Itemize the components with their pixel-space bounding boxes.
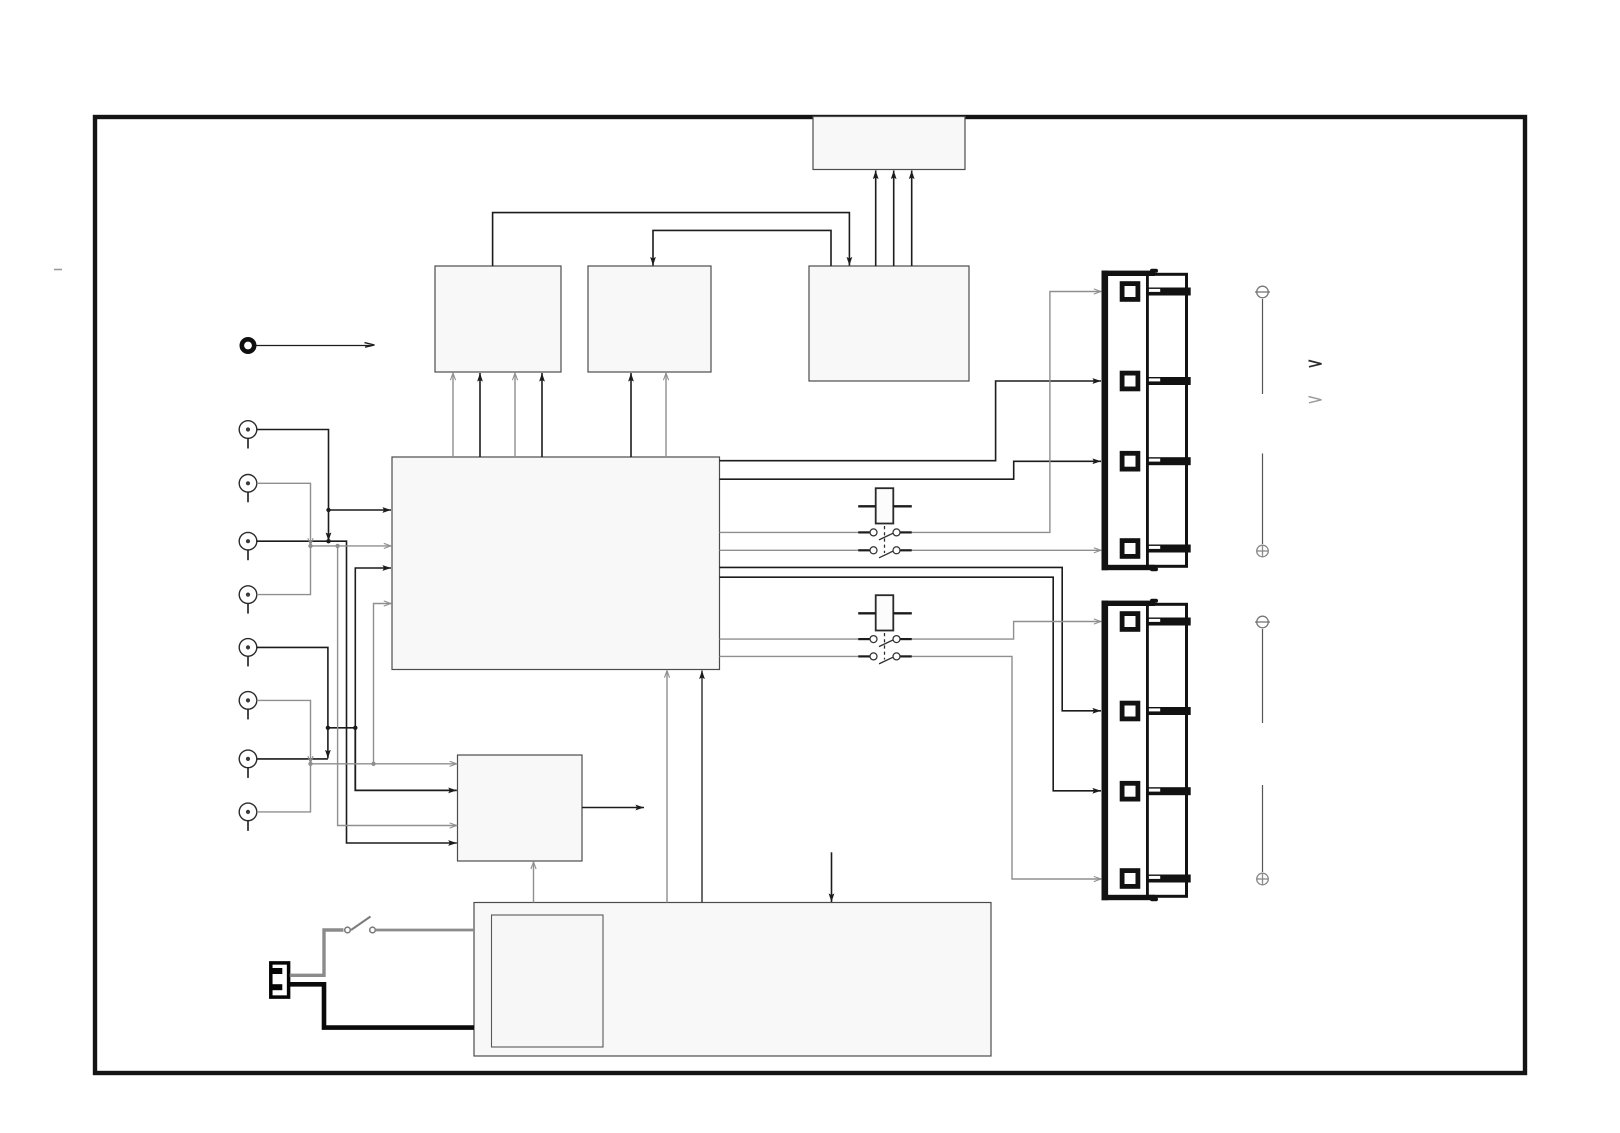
wire J2 down	[257, 483, 311, 545]
switch S1	[345, 917, 376, 933]
wire main module to connector X1 pin3	[720, 461, 1102, 479]
jack J8	[239, 803, 257, 831]
wire block A to block C	[493, 213, 850, 266]
relay K2 coil stub right	[893, 612, 912, 614]
sub module block	[458, 755, 583, 861]
wire main module to relay K1 contact row2	[720, 549, 859, 551]
wire main module to connector X2 pin2	[720, 567, 1102, 710]
wire power module to sub module	[533, 862, 535, 903]
wire net J5-J7 to sub module pin2	[355, 728, 457, 791]
chevron mark upper	[1309, 361, 1322, 367]
relay K1 contact row2	[858, 547, 912, 558]
polarity minus symbol lower	[1255, 616, 1270, 628]
chevron mark lower	[1309, 397, 1322, 403]
wire main module to connector X1 pin2	[720, 381, 1102, 461]
relay K1 actuation dashed link	[884, 526, 886, 553]
wire gray bus to sub module pin1	[311, 763, 457, 765]
polarity plus symbol lower	[1257, 873, 1269, 885]
wire power module to main module (dark)	[701, 671, 703, 903]
wire relay K2 row2 to connector X2 pin4	[912, 656, 1101, 879]
wire power module to main module (gray)	[666, 671, 668, 903]
wire block C to TOP pin3	[911, 171, 913, 267]
block B	[588, 266, 711, 372]
jack J2	[239, 475, 257, 503]
block A	[435, 266, 561, 372]
power module block	[474, 903, 991, 1057]
polarity link line lower segment 1	[1262, 629, 1264, 723]
wire main module to block A pin1	[452, 373, 454, 457]
wire relay K1 row1 to connector X1 pin1	[912, 292, 1101, 533]
wire battery ground to power module	[290, 984, 474, 1027]
wire J2-J4 net to sub module pin3	[338, 546, 457, 826]
polarity link line lower segment 2	[1262, 785, 1264, 872]
wire J5/J7 bridge	[328, 727, 355, 729]
connector X1	[1102, 269, 1191, 572]
wire J4 up	[257, 546, 311, 595]
wire J8 up	[257, 764, 311, 812]
polarity link line upper segment 1	[1262, 299, 1264, 394]
relay K2 coil	[876, 595, 894, 630]
relay K2 contact row1	[858, 636, 912, 647]
jack J4	[239, 586, 257, 614]
relay K2 contact row2	[858, 653, 912, 664]
polarity plus symbol upper	[1257, 545, 1269, 557]
relay K1 coil stub right	[893, 505, 912, 507]
block C	[809, 266, 969, 381]
wire stub into power module	[831, 852, 833, 902]
wire tick at left margin	[54, 269, 62, 271]
junction J5 bridge right	[353, 726, 357, 730]
wire J5 down	[257, 647, 328, 758]
junction J2	[308, 544, 312, 548]
wire main module to block A pin2	[479, 373, 481, 457]
wire main module to relay K1 contact row1	[720, 531, 859, 533]
wire main module to relay K2 contact row2	[720, 655, 859, 657]
jack J1	[239, 421, 257, 449]
wire main module to block B pin2	[665, 373, 667, 457]
wire block C to TOP pin1	[875, 171, 877, 267]
battery B1	[271, 963, 289, 997]
relay K1 coil	[876, 488, 894, 523]
jack J6	[239, 692, 257, 720]
wire battery to switch S1	[290, 930, 344, 975]
polarity minus symbol upper	[1255, 286, 1270, 298]
wire J6-J8 net to main module pin4	[374, 604, 392, 764]
connector X2	[1102, 599, 1191, 902]
wire from ring terminal	[257, 343, 375, 348]
jack J7	[239, 750, 257, 778]
wire gray bus to main module pin2	[311, 545, 392, 547]
jack J3	[239, 532, 257, 560]
wire J3 to sub module pin4	[257, 541, 457, 843]
junction gray bus lower	[371, 762, 375, 766]
wire main module to relay K2 contact row1	[720, 638, 859, 640]
wire net J5-J7 to main module pin3	[355, 568, 391, 728]
main module block	[392, 457, 720, 670]
relay K1 contact row1	[858, 529, 912, 540]
jack J5	[239, 639, 257, 667]
wire main module to block A pin3	[514, 373, 516, 457]
junction J1 branch	[326, 508, 330, 512]
wire relay K1 row2 to connector X1 pin4	[912, 549, 1101, 551]
wire block C to TOP pin2	[893, 171, 895, 267]
block TOP (display unit)	[813, 117, 965, 170]
wire main module to block A pin4	[541, 373, 543, 457]
wire main module to connector X2 pin3	[720, 577, 1102, 791]
junction J1-J3	[326, 539, 330, 543]
ring terminal symbol	[242, 339, 254, 351]
inner module block	[492, 915, 604, 1047]
wire J1 branch to main module pin1	[329, 509, 392, 511]
junction gray bus upper	[335, 544, 339, 548]
wire main module to block B pin1	[630, 373, 632, 457]
relay K2 actuation dashed link	[884, 633, 886, 660]
wire block C to block B	[653, 230, 831, 266]
junction J6	[308, 762, 312, 766]
wire relay K2 row1 to connector X2 pin1	[912, 622, 1101, 640]
polarity link line upper segment 2	[1262, 454, 1264, 545]
wire sub module output	[582, 807, 644, 809]
relay K2 coil stub left	[858, 612, 876, 614]
wire switch S1 to power module	[376, 929, 475, 932]
relay K1 coil stub left	[858, 505, 876, 507]
wire J1 down	[257, 430, 329, 542]
wire J7	[257, 758, 328, 760]
junction J5 bridge left	[326, 726, 330, 730]
wire J6 down	[257, 700, 311, 763]
